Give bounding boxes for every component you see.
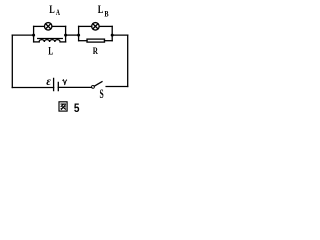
wire top branch left to lamp LA: [34, 25, 45, 27]
svg-text:L: L: [48, 45, 53, 58]
node B junction dot: [64, 34, 67, 37]
wire bottom branch left to coil: [34, 41, 40, 43]
wire left rail: [11, 35, 13, 87]
svg-text:S: S: [100, 87, 104, 101]
caption 图 5: [59, 102, 80, 115]
left block left bracket: [33, 26, 35, 42]
label r internal resistance: [62, 80, 67, 85]
wire coil to right bracket: [60, 41, 66, 43]
battery short plate: [57, 82, 59, 90]
inductor L core bar: [38, 38, 63, 40]
wire tap left: node A to left rail: [12, 34, 33, 36]
svg-text:ε: ε: [46, 76, 51, 88]
svg-text:5: 5: [74, 102, 80, 115]
battery long plate: [53, 78, 55, 90]
wire between blocks node B to node C: [66, 34, 79, 36]
wire top branch to lamp LB: [79, 25, 92, 27]
wire resistor R to right bracket: [105, 40, 113, 42]
wire tap right: right rail to node D: [112, 34, 128, 36]
wire lamp LB to right bracket: [99, 25, 112, 27]
left block right bracket: [65, 26, 67, 42]
right block left bracket: [78, 26, 80, 40]
node C junction dot: [77, 34, 80, 37]
switch S arm: [94, 82, 102, 87]
wire switch to right rail: [106, 86, 128, 88]
svg-text:L: L: [49, 3, 55, 16]
node A junction dot: [32, 34, 35, 37]
svg-text:B: B: [104, 9, 109, 18]
wire lamp LA to right bracket: [52, 25, 66, 27]
svg-text:L: L: [98, 3, 104, 16]
wire bottom left to battery: [12, 87, 53, 89]
node D junction dot: [111, 34, 114, 37]
inductor L coil: [39, 40, 60, 42]
right block right bracket: [111, 26, 113, 40]
resistor R box: [87, 39, 105, 42]
switch S pivot circle: [92, 85, 95, 88]
lamp LB: [92, 23, 100, 31]
svg-text:A: A: [56, 8, 60, 17]
wire right rail: [127, 35, 129, 86]
svg-text:R: R: [93, 46, 99, 57]
lamp LA: [44, 23, 52, 31]
wire battery to switch: [58, 86, 91, 88]
wire bottom branch to resistor R: [79, 40, 87, 42]
